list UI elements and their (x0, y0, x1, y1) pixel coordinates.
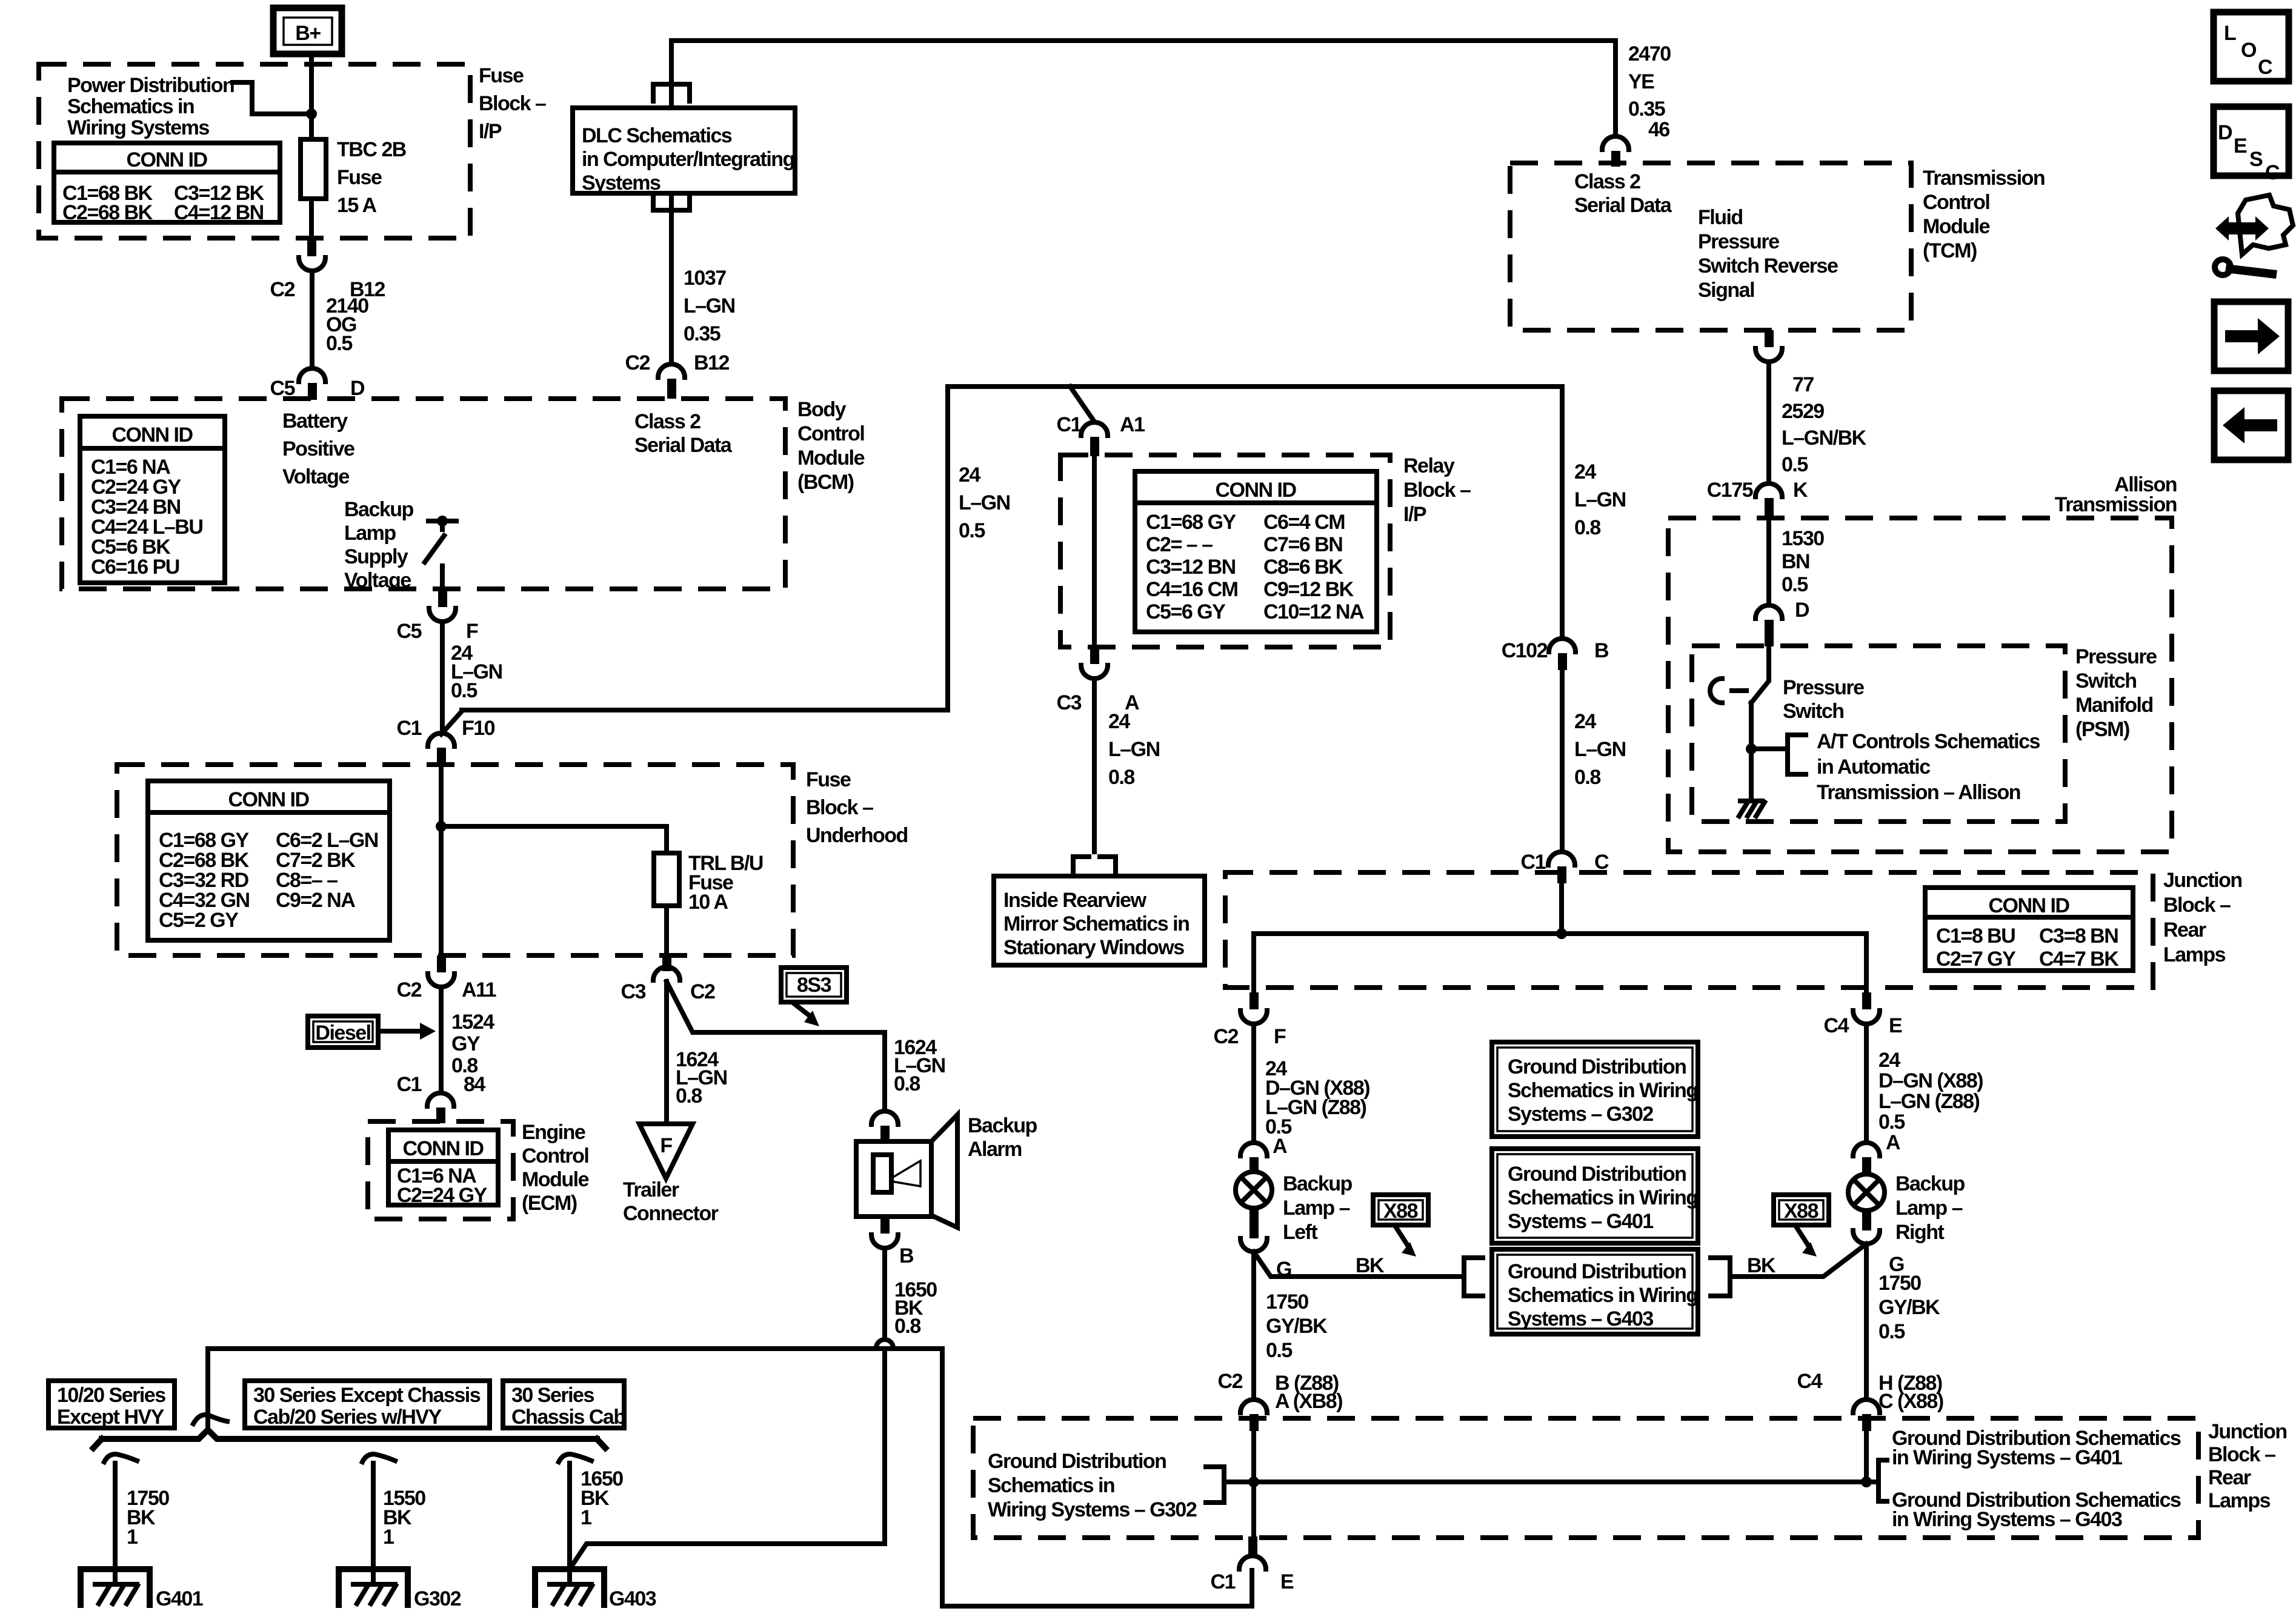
wire 1530 BN 0.5 (1769, 519, 1824, 605)
svg-text:Lamps: Lamps (2163, 943, 2226, 966)
svg-text:Switch Reverse: Switch Reverse (1698, 254, 1838, 277)
svg-text:Block –: Block – (2208, 1443, 2275, 1466)
svg-text:1750: 1750 (1266, 1290, 1308, 1313)
svg-text:46: 46 (1648, 118, 1669, 141)
sidebar icon arrow left (2214, 391, 2288, 460)
svg-text:1: 1 (127, 1526, 138, 1549)
svg-text:0.8: 0.8 (676, 1084, 702, 1108)
Allison Transmission dashed box (1668, 518, 2172, 852)
DLC inline connector bracket (top) (653, 84, 690, 101)
wire 1037 L-GN 0.35 (671, 193, 735, 364)
svg-text:Schematics in Wiring: Schematics in Wiring (1508, 1079, 1698, 1102)
svg-text:10/20 Series: 10/20 Series (57, 1384, 165, 1407)
svg-text:Transmission – Allison: Transmission – Allison (1817, 781, 2020, 804)
CONN ID table (fuse block I/P) (54, 143, 280, 224)
svg-text:Module: Module (1923, 215, 1990, 238)
svg-text:Lamps: Lamps (2208, 1489, 2271, 1512)
trailer connector F triangle (623, 1124, 719, 1225)
svg-text:CONN ID: CONN ID (126, 148, 207, 171)
alarm ground wire to G403 (570, 1353, 885, 1569)
svg-text:Backup: Backup (344, 498, 414, 521)
svg-text:Wiring Systems: Wiring Systems (67, 116, 209, 139)
svg-text:C175: C175 (1707, 479, 1753, 502)
CONN ID table (junction block) (1925, 888, 2133, 971)
wire in fuse block underhood (436, 765, 447, 955)
svg-text:B12: B12 (694, 351, 729, 374)
svg-text:L: L (2224, 22, 2236, 45)
svg-text:A/T Controls Schematics: A/T Controls Schematics (1817, 730, 2040, 753)
svg-text:C3: C3 (1057, 691, 1082, 714)
ground bus from junction block E (208, 1349, 1252, 1606)
ECM dashed box (368, 1121, 513, 1219)
svg-text:1530: 1530 (1782, 527, 1824, 550)
svg-text:C1: C1 (1211, 1570, 1236, 1593)
svg-text:A (XB8): A (XB8) (1275, 1390, 1342, 1413)
wire 24 L-GN 0.8 (BCM to relay area) (1574, 460, 1626, 539)
svg-text:C4=7 BK: C4=7 BK (2039, 948, 2119, 971)
label Class 2 Serial Data (TCM) (1574, 170, 1672, 217)
svg-text:Transmission: Transmission (1923, 167, 2045, 190)
label Class 2 Serial Data (BCM) (634, 410, 733, 457)
inline connector bracket (mirror) (1073, 857, 1116, 876)
svg-text:C5=6 GY: C5=6 GY (1146, 600, 1226, 623)
svg-text:C1: C1 (397, 717, 422, 740)
wire 24 D-GN/L-GN 0.5 (left) (1254, 1024, 1369, 1158)
svg-text:0.35: 0.35 (1628, 98, 1665, 121)
DLC Schematics box (573, 108, 795, 194)
battery feed B+ (273, 8, 342, 54)
svg-text:C2: C2 (1218, 1370, 1243, 1393)
note box Ground Distribution G401 (1492, 1149, 1698, 1243)
svg-text:30 Series: 30 Series (511, 1384, 594, 1407)
switch contact and blade (425, 516, 456, 589)
svg-text:in Wiring Systems – G403: in Wiring Systems – G403 (1892, 1508, 2122, 1531)
svg-text:Fluid: Fluid (1698, 206, 1743, 229)
svg-text:0.35: 0.35 (684, 322, 720, 345)
branch wire to TRL B/U fuse (441, 826, 667, 853)
connector C2 F (left lamp feed) (1214, 992, 1286, 1048)
connector C4 E (right lamp feed) (1824, 992, 1902, 1037)
svg-text:Left: Left (1283, 1221, 1318, 1244)
svg-text:C4=16 CM: C4=16 CM (1146, 578, 1238, 601)
svg-text:E: E (1280, 1570, 1294, 1593)
svg-text:C2= – –: C2= – – (1146, 533, 1213, 556)
tag X88 (left) (1373, 1195, 1428, 1257)
label Fluid Pressure Switch Reverse Signal (1698, 206, 1838, 302)
svg-text:C3=12 BN: C3=12 BN (1146, 556, 1236, 579)
svg-text:C2: C2 (397, 978, 422, 1001)
svg-text:Ground Distribution: Ground Distribution (988, 1450, 1166, 1473)
connector G (right lamp ground) (1853, 1210, 1904, 1276)
svg-text:CONN ID: CONN ID (402, 1137, 484, 1160)
fuse TRL B/U 10A (654, 852, 763, 914)
svg-text:I/P: I/P (1403, 503, 1426, 526)
svg-text:Inside Rearview: Inside Rearview (1003, 889, 1147, 912)
svg-text:C (X88): C (X88) (1878, 1390, 1943, 1413)
svg-text:Power Distribution: Power Distribution (67, 74, 234, 97)
svg-text:A1: A1 (1120, 413, 1145, 436)
svg-text:Ground Distribution: Ground Distribution (1508, 1260, 1686, 1283)
DLC inline connector bracket (bottom) (653, 193, 690, 210)
wire 1750 GY/BK 0.5 (left) (1254, 1252, 1328, 1400)
label Body Control Module (BCM) (797, 398, 865, 494)
svg-text:Positive: Positive (282, 437, 354, 460)
junction to A/T controls (1746, 730, 2040, 804)
tag X88 (right) (1774, 1195, 1829, 1257)
svg-text:C6=16 PU: C6=16 PU (91, 556, 179, 579)
connector C102 B (1502, 639, 1609, 670)
svg-text:Block –: Block – (479, 92, 546, 115)
svg-text:0.5: 0.5 (1782, 453, 1808, 476)
ground G403 (535, 1569, 656, 1610)
connector C5 F (BCM out) (397, 589, 478, 643)
svg-text:Systems – G403: Systems – G403 (1508, 1307, 1653, 1330)
svg-text:(ECM): (ECM) (522, 1192, 577, 1215)
ground (pressure switch) (1739, 801, 1765, 816)
svg-text:Ground Distribution: Ground Distribution (1508, 1055, 1686, 1078)
svg-text:C1: C1 (1057, 413, 1082, 436)
svg-text:Block –: Block – (806, 796, 873, 819)
svg-text:Lamp –: Lamp – (1895, 1197, 1963, 1220)
svg-text:F: F (660, 1134, 672, 1157)
svg-text:DLC Schematics: DLC Schematics (582, 124, 732, 147)
wire 24 L-GN 0.5 (F to F10) (442, 622, 502, 733)
CONN ID table (ECM) (388, 1130, 498, 1207)
label Fuse Block I/P (479, 64, 546, 143)
svg-text:C1=8 BU: C1=8 BU (1936, 925, 2015, 948)
ground G302 (339, 1569, 461, 1610)
option box 30 Series Chassis Cab (503, 1381, 625, 1429)
svg-text:Engine: Engine (522, 1121, 585, 1144)
svg-text:Manifold: Manifold (2075, 694, 2153, 717)
connector into backup alarm (871, 1111, 898, 1143)
svg-text:G401: G401 (156, 1587, 203, 1610)
svg-text:B: B (1594, 639, 1609, 662)
svg-text:Fuse: Fuse (806, 768, 851, 791)
svg-text:L–GN: L–GN (959, 491, 1010, 514)
svg-text:Right: Right (1895, 1221, 1945, 1244)
svg-text:Schematics in: Schematics in (67, 95, 194, 118)
connector C1 E (junction block) (1211, 1536, 1294, 1593)
wire B+ to fuse TBC 2B (306, 54, 317, 139)
svg-text:Relay: Relay (1403, 454, 1455, 477)
label Engine Control Module (ECM) (522, 1121, 589, 1215)
svg-text:0.8: 0.8 (1108, 766, 1134, 789)
svg-text:0.5: 0.5 (959, 519, 985, 542)
connector A (right lamp) (1853, 1143, 1880, 1173)
svg-text:Switch: Switch (2075, 669, 2137, 692)
series option brace (93, 1430, 605, 1448)
svg-text:0.5: 0.5 (451, 679, 477, 702)
svg-text:Battery: Battery (282, 410, 348, 433)
connector C2 B12 (fuse block out) (270, 238, 385, 301)
svg-text:Control: Control (1923, 191, 1989, 214)
svg-text:Control: Control (797, 422, 864, 445)
svg-text:C2=7 GY: C2=7 GY (1936, 948, 2016, 971)
svg-text:2470: 2470 (1628, 42, 1671, 65)
svg-text:CONN ID: CONN ID (111, 423, 193, 447)
svg-text:C5=2 GY: C5=2 GY (159, 909, 239, 932)
svg-text:Control: Control (522, 1144, 588, 1167)
label Fuse Block Underhood (806, 768, 908, 847)
svg-text:(BCM): (BCM) (797, 471, 854, 494)
svg-text:Signal: Signal (1698, 279, 1754, 302)
wire 2470 YE 0.35 (to TCM) (1628, 42, 1671, 141)
svg-text:C9=12 BK: C9=12 BK (1263, 578, 1354, 601)
svg-text:77: 77 (1792, 373, 1814, 396)
svg-text:0.8: 0.8 (1574, 516, 1600, 539)
svg-text:Systems: Systems (582, 171, 661, 194)
svg-text:G302: G302 (414, 1587, 461, 1610)
label Transmission Control Module (TCM) (1923, 167, 2045, 262)
svg-text:in Wiring Systems – G401: in Wiring Systems – G401 (1892, 1446, 2122, 1469)
svg-text:Block –: Block – (2163, 894, 2231, 917)
option box 10/20 Series Except HVY (48, 1381, 175, 1429)
tag 8S3 with arrow (781, 968, 847, 1026)
wire through relay block (1092, 456, 1097, 647)
svg-text:Stationary Windows: Stationary Windows (1003, 936, 1184, 959)
svg-text:Systems – G401: Systems – G401 (1508, 1210, 1653, 1233)
sidebar icon DESC (2214, 107, 2289, 184)
svg-text:L–GN: L–GN (1574, 738, 1626, 761)
svg-text:Transmission: Transmission (2055, 493, 2177, 516)
connector 77 (TCM out) (1755, 330, 1814, 396)
PSM dashed box (1692, 646, 2065, 822)
lamp feed bus in junction block (1254, 883, 1866, 992)
svg-text:in Automatic: in Automatic (1817, 756, 1930, 779)
connector C175 K (1707, 479, 1808, 518)
connector C2 B(Z88) A(XB8) (1218, 1370, 1343, 1431)
TCM dashed box (1510, 163, 1911, 330)
fuse block I/P dashed box (39, 64, 470, 238)
svg-text:0.8: 0.8 (1574, 766, 1600, 789)
svg-text:Fuse: Fuse (337, 166, 382, 189)
connector B (alarm ground) (871, 1217, 914, 1267)
svg-text:F10: F10 (462, 717, 495, 740)
svg-text:Wiring Systems – G302: Wiring Systems – G302 (988, 1498, 1197, 1521)
svg-text:D–GN (X88): D–GN (X88) (1878, 1069, 1983, 1092)
svg-text:Module: Module (797, 447, 865, 470)
svg-text:0.5: 0.5 (326, 332, 352, 355)
svg-text:C3=8 BN: C3=8 BN (2039, 925, 2118, 948)
wire 1750 GY/BK 0.5 (right) (1866, 1244, 1940, 1400)
svg-text:D: D (1795, 599, 1809, 622)
svg-text:1: 1 (383, 1526, 394, 1549)
connector C1 F10 (into fuse block underhood) (397, 711, 495, 765)
connector C3 A (relay block out) (1057, 647, 1139, 714)
svg-text:Backup: Backup (1283, 1172, 1353, 1195)
svg-text:1: 1 (581, 1506, 591, 1529)
sidebar icon arrow right (2214, 302, 2288, 371)
backup lamp right (1848, 1172, 1965, 1244)
svg-text:Backup: Backup (968, 1114, 1037, 1137)
svg-text:F: F (1274, 1025, 1286, 1048)
svg-text:in Computer/Integrating: in Computer/Integrating (582, 148, 794, 171)
svg-text:15 A: 15 A (337, 194, 377, 217)
svg-text:0.5: 0.5 (1878, 1320, 1905, 1343)
svg-text:24: 24 (1574, 710, 1596, 733)
Diesel tag with arrow (308, 1016, 436, 1048)
svg-text:Except HVY: Except HVY (57, 1406, 165, 1429)
wire 1750 BK 1 to G401 (104, 1454, 169, 1584)
svg-text:YE: YE (1628, 70, 1654, 93)
svg-text:X88: X88 (1383, 1200, 1418, 1223)
svg-text:Block –: Block – (1403, 479, 1471, 502)
svg-text:L–GN (Z88): L–GN (Z88) (1878, 1090, 1980, 1113)
svg-text:Rear: Rear (2208, 1466, 2251, 1489)
connector C3 C2 (underhood to trailer/alarm) (621, 955, 716, 1003)
backup lamp left (1236, 1172, 1353, 1244)
top serial data wire (DLC to TCM) (671, 41, 1616, 136)
svg-text:Serial Data: Serial Data (634, 434, 733, 457)
connector C1 A1 (into relay block) (1057, 413, 1145, 456)
svg-text:S: S (2249, 148, 2263, 171)
fuse block underhood dashed box (117, 765, 793, 955)
svg-text:0.5: 0.5 (1266, 1339, 1292, 1362)
svg-text:Diesel: Diesel (315, 1021, 370, 1044)
connector C1 84 (into ECM) (397, 1073, 486, 1123)
connector D (into PSM) (1755, 599, 1809, 646)
svg-text:Cab/20 Series w/HVY: Cab/20 Series w/HVY (253, 1406, 442, 1429)
svg-text:C4=12 BN: C4=12 BN (174, 201, 264, 224)
svg-text:GY/BK: GY/BK (1878, 1296, 1940, 1319)
svg-text:C1=68 GY: C1=68 GY (1146, 511, 1237, 534)
svg-text:A: A (1273, 1135, 1287, 1158)
svg-text:Trailer: Trailer (623, 1178, 679, 1201)
wire 1624 L-GN 0.8 to trailer connector (667, 981, 727, 1124)
svg-text:(PSM): (PSM) (2075, 718, 2129, 741)
svg-text:0.5: 0.5 (1878, 1111, 1905, 1134)
svg-text:Ground Distribution: Ground Distribution (1508, 1163, 1686, 1186)
CONN ID table (relay block) (1135, 471, 1377, 632)
svg-text:Class 2: Class 2 (634, 410, 700, 433)
svg-text:24: 24 (1574, 460, 1596, 483)
svg-text:Schematics in Wiring: Schematics in Wiring (1508, 1284, 1698, 1307)
svg-text:Voltage: Voltage (344, 569, 411, 592)
splice clip (193, 1415, 227, 1424)
wire fuse to C3/C2 (664, 906, 669, 955)
connector C2 A11 (underhood out) (397, 955, 496, 1001)
svg-text:C5: C5 (397, 620, 422, 643)
svg-text:1750: 1750 (1878, 1272, 1921, 1295)
label Battery Positive Voltage (282, 410, 354, 488)
svg-text:C4: C4 (1797, 1370, 1823, 1393)
svg-text:Rear: Rear (2163, 918, 2206, 941)
svg-text:1037: 1037 (684, 267, 726, 290)
wire 2140 OG 0.5 (312, 271, 368, 368)
svg-text:Junction: Junction (2208, 1420, 2287, 1443)
junction block rear lamps dashed box (1225, 872, 2153, 988)
svg-text:(TCM): (TCM) (1923, 239, 1977, 262)
svg-text:A: A (1886, 1131, 1900, 1154)
svg-text:1524: 1524 (451, 1011, 494, 1034)
svg-text:Pressure: Pressure (2075, 645, 2157, 668)
svg-text:X88: X88 (1784, 1200, 1818, 1223)
svg-text:Class 2: Class 2 (1574, 170, 1640, 193)
svg-text:D: D (2218, 121, 2232, 144)
svg-text:E: E (1889, 1014, 1902, 1037)
svg-text:L–GN/BK: L–GN/BK (1782, 427, 1867, 450)
svg-text:Connector: Connector (623, 1202, 719, 1225)
sidebar icon vehicle/wrench (2215, 195, 2293, 279)
wire hop over ground bus (876, 1340, 893, 1348)
svg-text:E: E (2234, 134, 2247, 158)
svg-text:0.8: 0.8 (894, 1315, 920, 1338)
svg-text:C2: C2 (270, 278, 295, 301)
wire 1550 BK 1 to G302 (362, 1454, 425, 1584)
wire 1650 BK 0.8 (885, 1248, 937, 1340)
note box Ground Distribution G403 (1492, 1249, 1698, 1334)
svg-text:Body: Body (797, 398, 847, 421)
svg-text:24: 24 (1878, 1049, 1900, 1072)
svg-text:C7=6 BN: C7=6 BN (1263, 533, 1342, 556)
ground bus drop to series options (205, 1349, 210, 1425)
connector C4 H(Z88) C(X88) (1797, 1370, 1943, 1431)
svg-text:Serial Data: Serial Data (1574, 194, 1672, 217)
note Ground Distribution G401/G403 (band right) (1874, 1427, 2181, 1531)
svg-text:C2: C2 (625, 351, 650, 374)
svg-text:2529: 2529 (1782, 400, 1824, 423)
svg-text:Lamp: Lamp (344, 522, 396, 545)
label 24 L-GN 0.5 (branch wire) (959, 463, 1010, 542)
svg-text:GY: GY (451, 1032, 481, 1055)
label Allison Transmission (2055, 473, 2177, 516)
svg-text:Junction: Junction (2163, 869, 2242, 892)
svg-text:Supply: Supply (344, 545, 408, 568)
svg-text:Chassis Cab: Chassis Cab (511, 1406, 625, 1429)
svg-text:CONN ID: CONN ID (228, 788, 309, 811)
svg-text:L–GN: L–GN (684, 294, 735, 317)
svg-text:A11: A11 (462, 978, 496, 1001)
backup alarm (856, 1114, 1037, 1227)
connector 46 (into TCM) (1602, 136, 1629, 167)
svg-text:30 Series Except Chassis: 30 Series Except Chassis (253, 1384, 481, 1407)
svg-text:C10=12 NA: C10=12 NA (1263, 600, 1364, 623)
svg-text:Fuse: Fuse (479, 64, 524, 87)
svg-text:C3: C3 (621, 980, 646, 1003)
fuse TBC 2B 15A (301, 138, 407, 217)
svg-text:F: F (466, 620, 478, 643)
label Junction Block Rear Lamps (bottom) (2208, 1420, 2287, 1512)
label Junction Block Rear Lamps (2163, 869, 2242, 966)
svg-text:10 A: 10 A (688, 891, 728, 914)
Inside Rearview Mirror box (994, 876, 1205, 965)
junction block ground band dashed box (973, 1418, 2198, 1538)
svg-text:C: C (2258, 56, 2272, 79)
CONN ID table (BCM) (80, 416, 225, 583)
wire F10 branch to relay block A1 (462, 387, 1562, 710)
svg-text:0.5: 0.5 (1782, 573, 1808, 596)
svg-text:O: O (2241, 39, 2257, 62)
svg-text:I/P: I/P (479, 120, 502, 143)
svg-text:BK: BK (1356, 1254, 1385, 1277)
svg-text:Schematics in: Schematics in (988, 1474, 1114, 1497)
svg-text:24: 24 (1108, 710, 1130, 733)
svg-text:G403: G403 (609, 1587, 656, 1610)
svg-text:Mirror Schematics in: Mirror Schematics in (1003, 912, 1189, 935)
wire fuse to connector (309, 199, 314, 238)
left lamp ground to G403 bracket (1254, 1252, 1483, 1296)
svg-text:B: B (899, 1244, 914, 1267)
svg-text:GY/BK: GY/BK (1266, 1315, 1328, 1338)
svg-text:CONN ID: CONN ID (1988, 894, 2069, 917)
svg-text:C2=24 GY: C2=24 GY (397, 1184, 488, 1207)
ground wire inside junction band (1229, 1430, 1874, 1536)
svg-text:Pressure: Pressure (1698, 230, 1779, 253)
wire 1624 L-GN 0.8 to backup alarm (667, 981, 945, 1111)
svg-text:C2: C2 (690, 980, 715, 1003)
svg-text:CONN ID: CONN ID (1215, 479, 1296, 502)
